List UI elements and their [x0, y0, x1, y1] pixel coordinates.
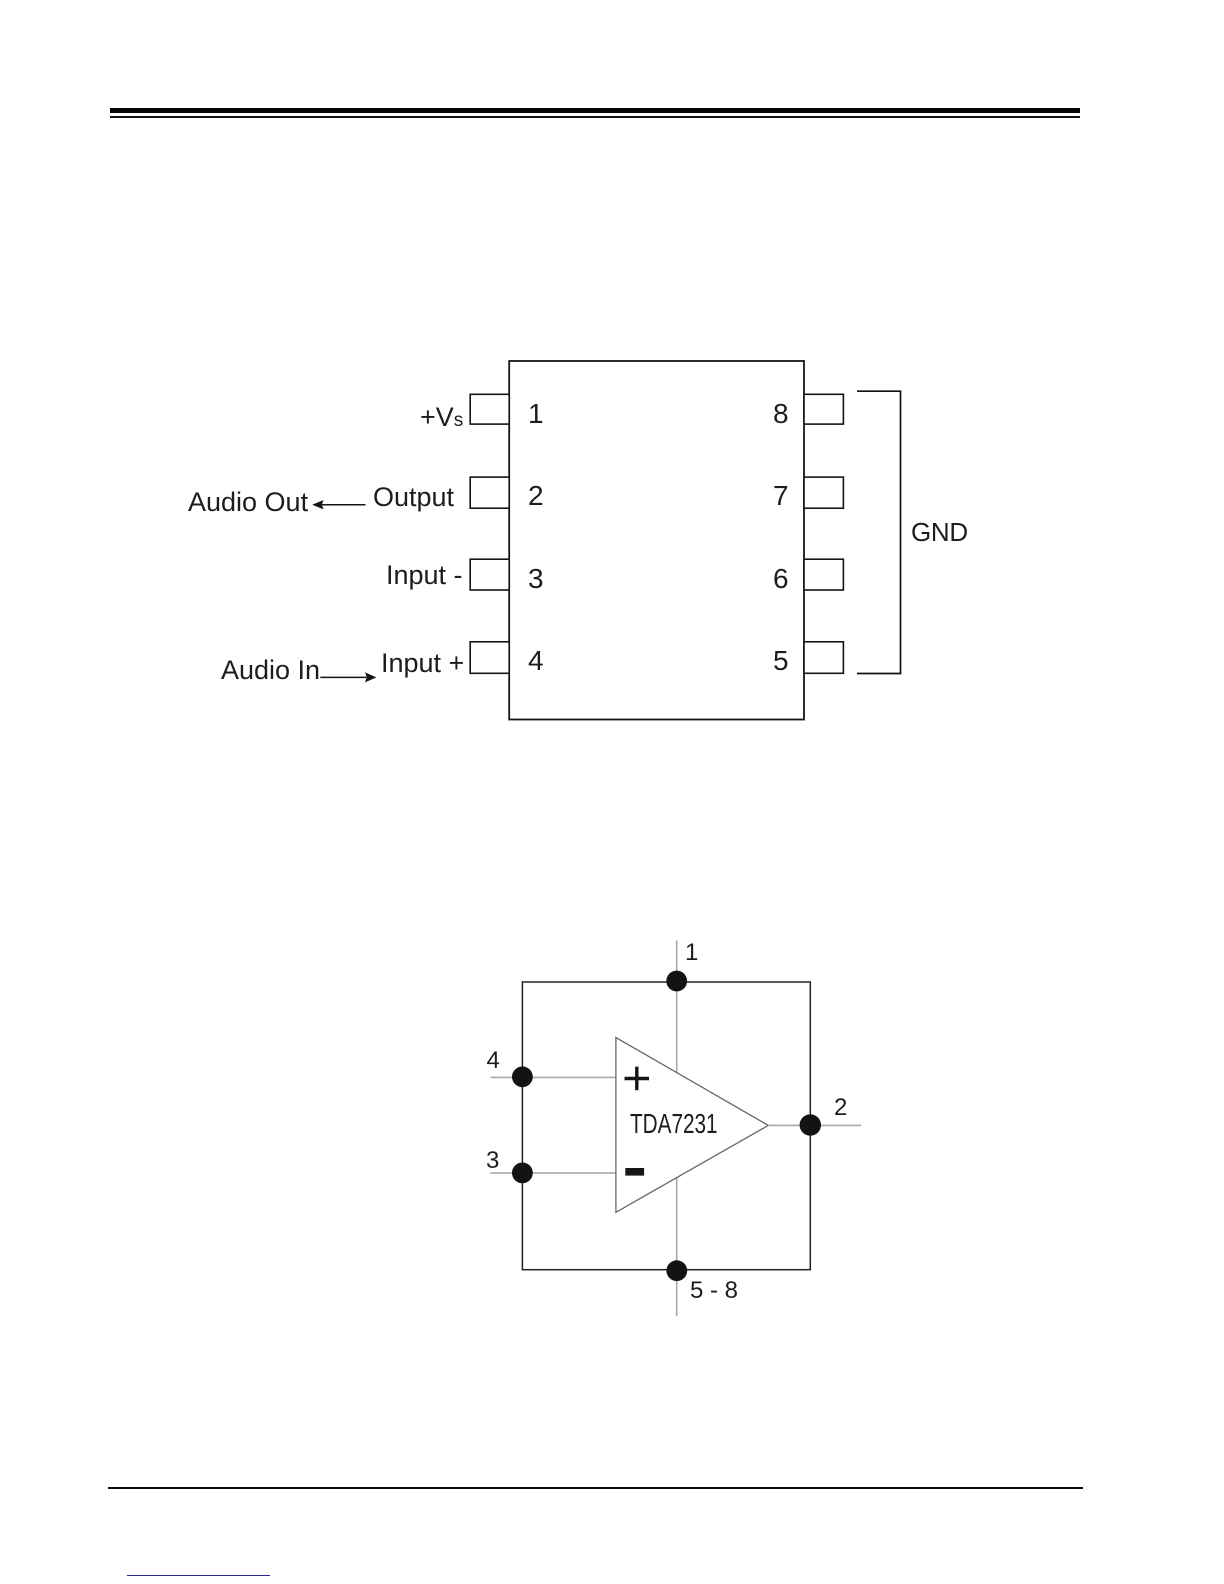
pin number 3 — [528, 565, 544, 593]
pin 1 pad — [470, 394, 509, 424]
label GND — [911, 519, 968, 545]
net label 4 — [487, 1049, 500, 1073]
pin 6 pad — [804, 559, 843, 590]
pin 3 pad — [470, 559, 509, 590]
wire input pin 4 — [491, 1076, 616, 1078]
junction dot pins 5-8 — [666, 1260, 687, 1281]
wire output pin 2 — [768, 1124, 861, 1126]
pin 4 pad — [470, 642, 509, 674]
pin number 8 — [773, 400, 789, 428]
junction dot pin 1 — [666, 971, 687, 992]
net label 5 - 8 — [690, 1279, 738, 1303]
pin 5 pad — [804, 642, 843, 674]
label Audio In — [221, 657, 320, 684]
IC body U1 — [509, 361, 804, 720]
top rule thin — [110, 116, 1080, 117]
pin number 1 — [528, 400, 544, 428]
top rule thick — [110, 108, 1080, 113]
label Input - — [386, 562, 463, 589]
op-amp U1 TDA7231 triangle — [616, 1038, 768, 1213]
label +Vs — [420, 404, 463, 434]
plus input symbol — [625, 1067, 650, 1091]
pin number 2 — [528, 482, 544, 510]
label Audio Out — [188, 489, 308, 516]
pin 8 pad — [804, 394, 843, 424]
junction dot pin 4 — [512, 1066, 533, 1087]
junction dot pin 2 — [800, 1114, 821, 1135]
junction dot pin 3 — [512, 1163, 533, 1184]
pin number 6 — [773, 565, 789, 593]
hyperlink underline fragment — [127, 1575, 270, 1577]
minus input symbol — [625, 1168, 644, 1176]
label Input + — [381, 650, 464, 677]
pin 2 pad — [470, 477, 509, 508]
node line pin1 (vertical supply wire) — [676, 941, 678, 1317]
pin 7 pad — [804, 477, 843, 508]
label TDA7231 — [630, 1110, 718, 1138]
wire input pin 3 — [490, 1172, 616, 1174]
pin number 7 — [773, 482, 789, 510]
net label 1 — [685, 941, 698, 965]
feedback loop rectangle wire — [522, 982, 810, 1270]
net label 3 — [486, 1149, 499, 1173]
net label 2 — [834, 1096, 847, 1120]
label Output — [373, 484, 454, 511]
arrow Audio In (pointing right) — [318, 668, 380, 686]
bottom rule — [108, 1487, 1083, 1490]
arrow Audio Out (pointing left) — [308, 496, 370, 514]
GND bracket — [855, 389, 905, 676]
pin number 5 — [773, 647, 789, 675]
pin number 4 — [528, 647, 544, 675]
